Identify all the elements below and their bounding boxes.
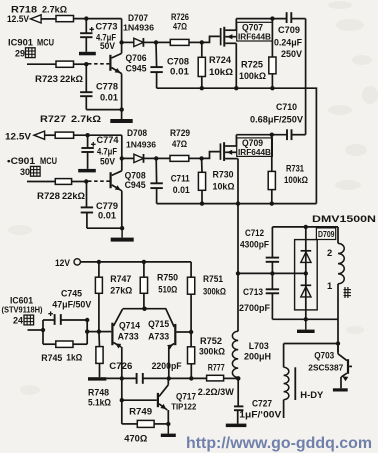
wire (right bus from C709 down to C710)	[305, 19, 307, 135]
resistor R723 22k	[56, 61, 74, 67]
transistor Q715 A733	[174, 324, 176, 345]
wire	[72, 181, 87, 183]
wire (ch1 source rail)	[157, 87, 306, 89]
svg-text:R751: R751	[203, 274, 223, 284]
svg-text:C779: C779	[96, 201, 118, 211]
ground (C774)	[78, 169, 96, 173]
diode (lower, in D709)	[301, 284, 312, 286]
svg-text:C713: C713	[243, 287, 263, 297]
wire	[156, 41, 170, 43]
svg-text:D707: D707	[128, 12, 148, 23]
diode (upper, in D709)	[301, 250, 312, 252]
capacitor C727 1uF/100V	[237, 378, 239, 405]
svg-text:0.01: 0.01	[173, 185, 190, 195]
svg-text:2200pF: 2200pF	[152, 361, 182, 371]
wire to Q707 gate	[202, 36, 220, 42]
svg-text:510Ω: 510Ω	[158, 285, 177, 295]
resistor R730 10k	[201, 158, 203, 172]
resistor R748 5.1k	[98, 332, 101, 347]
svg-text:C726: C726	[109, 361, 132, 371]
diode D708 1N4936	[122, 157, 134, 159]
svg-text:R727: R727	[40, 114, 66, 125]
ground (Q708 emitter)	[121, 228, 123, 237]
svg-text:100kΩ: 100kΩ	[239, 71, 266, 81]
wire to Q717 base	[121, 378, 123, 400]
svg-text:R750: R750	[157, 273, 178, 283]
svg-text:L703: L703	[249, 341, 269, 351]
svg-text:30: 30	[20, 167, 30, 177]
svg-text:12.5V: 12.5V	[5, 132, 32, 142]
svg-text:H-DY: H-DY	[300, 389, 324, 400]
diode D707 1N4936	[122, 41, 134, 43]
svg-text:200μH: 200μH	[244, 352, 271, 362]
svg-text:Q706: Q706	[126, 52, 147, 63]
svg-text:R718: R718	[11, 5, 37, 16]
svg-text:C710: C710	[276, 102, 297, 112]
svg-text:C709: C709	[278, 25, 300, 35]
svg-text:IRF644B: IRF644B	[238, 32, 271, 41]
svg-text:22kΩ: 22kΩ	[62, 191, 86, 201]
wire (dashed) to Q708 base	[88, 180, 110, 182]
svg-text:100kΩ: 100kΩ	[284, 175, 308, 185]
svg-text:C778: C778	[96, 82, 118, 92]
wire	[121, 19, 123, 43]
svg-text:http://www.go-gddq.com: http://www.go-gddq.com	[186, 435, 372, 452]
svg-text:Q709: Q709	[242, 138, 263, 148]
svg-text:C708: C708	[167, 57, 189, 67]
resistor R751 300k	[190, 262, 192, 277]
kanji (FBT)	[344, 287, 352, 298]
ground (Q703 emitter)	[333, 388, 348, 391]
svg-text:1N4936: 1N4936	[123, 23, 154, 33]
resistor R727 2.7k	[55, 132, 73, 138]
wire pin30	[27, 181, 55, 183]
svg-text:5.1kΩ: 5.1kΩ	[88, 398, 111, 408]
wire Q715 base	[176, 331, 191, 333]
svg-text:IRF644B: IRF644B	[238, 148, 271, 157]
resistor R747 27k	[98, 262, 100, 277]
inductor L703 200uH	[237, 273, 239, 331]
capacitor C726 2200pF	[136, 373, 138, 384]
svg-text:R777: R777	[208, 363, 225, 373]
svg-text:27kΩ: 27kΩ	[110, 286, 132, 296]
capacitor C712 4300pF	[271, 262, 273, 274]
H deflection yoke winding H-DY	[283, 344, 285, 368]
svg-text:0.68μF/250V: 0.68μF/250V	[250, 115, 303, 125]
svg-text:12V: 12V	[55, 257, 71, 268]
capacitor C774 4.7uF 50V	[87, 135, 89, 147]
svg-text:R747: R747	[110, 274, 131, 284]
capacitor C713 2700pF	[271, 273, 273, 288]
wire	[86, 109, 121, 111]
svg-text:1kΩ: 1kΩ	[66, 353, 82, 363]
pin29 kanji	[26, 48, 36, 58]
svg-text:12.5V: 12.5V	[7, 14, 30, 24]
svg-text:C727: C727	[252, 399, 272, 409]
svg-text:R745: R745	[41, 353, 62, 363]
svg-text:C712: C712	[245, 228, 264, 238]
transistor Q706 C945	[109, 55, 111, 71]
wire (12V rail)	[80, 261, 191, 263]
svg-text:R728: R728	[37, 191, 60, 201]
wire	[86, 320, 88, 344]
resistor R777 2.2/3W	[207, 375, 224, 381]
svg-text:MCU: MCU	[40, 156, 57, 166]
svg-text:•C901: •C901	[7, 156, 35, 166]
ground (C773)	[79, 52, 96, 56]
wire Q714 base	[99, 331, 111, 333]
resistor R749 470	[121, 400, 123, 424]
wire (bottom row to coil/Q703)	[272, 318, 338, 320]
resistor R724 10k	[201, 42, 203, 57]
wire (C712 top row)	[272, 226, 338, 228]
svg-text:R752: R752	[200, 336, 222, 346]
svg-text:MCU: MCU	[37, 38, 54, 48]
svg-text:47Ω: 47Ω	[173, 22, 187, 32]
svg-text:R729: R729	[170, 128, 190, 138]
svg-text:R731: R731	[286, 164, 304, 174]
wire (emitter row)	[106, 377, 136, 379]
ground (R748)	[88, 377, 106, 380]
transistor Q717 TIP122	[157, 393, 159, 407]
wire (H-DY top to Q703 collector)	[284, 343, 338, 345]
svg-text:0.01: 0.01	[170, 67, 189, 77]
svg-text:C711: C711	[171, 174, 190, 184]
wire (rail jog to right bus)	[306, 88, 317, 203]
ground (Q717 emitter)	[167, 424, 169, 434]
svg-text:C745: C745	[61, 289, 82, 299]
capacitor C773 4.7uF 50V	[85, 19, 87, 33]
svg-text:29: 29	[15, 49, 25, 59]
svg-text:0.24μF: 0.24μF	[274, 38, 303, 48]
wire	[189, 157, 202, 159]
D709 boxed label	[316, 228, 335, 240]
svg-text:C945: C945	[125, 179, 146, 190]
svg-text:R723: R723	[35, 74, 58, 84]
svg-text:0.01: 0.01	[100, 93, 118, 103]
capacitor C710 0.68uF/250V	[286, 129, 288, 140]
wire node A	[74, 18, 122, 20]
ground (under D709 block)	[305, 319, 307, 329]
svg-text:Q717: Q717	[176, 392, 196, 402]
wire	[74, 63, 87, 65]
resistor R731 100k	[271, 135, 273, 172]
svg-text:R725: R725	[241, 60, 263, 70]
svg-text:A733: A733	[148, 332, 169, 342]
wire	[45, 134, 56, 136]
resistor R750 510	[143, 262, 145, 277]
wire (dashed) to Q706 base	[88, 63, 109, 65]
svg-text:2.7kΩ: 2.7kΩ	[71, 114, 101, 125]
wire (mid row)	[238, 272, 306, 274]
capacitor C711 0.01	[155, 158, 157, 182]
MOSFET Q707 IRF644B	[220, 28, 222, 45]
svg-text:2.7kΩ: 2.7kΩ	[42, 5, 67, 16]
svg-text:2700pF: 2700pF	[239, 303, 270, 313]
svg-text:IC901: IC901	[8, 38, 33, 48]
svg-text:47μF/50V: 47μF/50V	[52, 300, 91, 310]
resistor R728 22k	[55, 179, 71, 185]
svg-text:(STV9118H): (STV9118H)	[2, 306, 43, 315]
wire	[87, 227, 122, 229]
svg-text:Q703: Q703	[314, 351, 334, 361]
svg-text:R724: R724	[209, 55, 232, 65]
ground (C727)	[226, 424, 247, 428]
svg-text:22kΩ: 22kΩ	[60, 74, 84, 84]
wire	[41, 18, 56, 20]
wire pin24	[28, 329, 44, 331]
svg-text:10kΩ: 10kΩ	[213, 182, 235, 192]
wire (bus down to lower section)	[237, 204, 239, 274]
svg-text:D709: D709	[318, 229, 335, 239]
wire (Q707 drain)	[235, 19, 237, 31]
svg-text:R748: R748	[88, 388, 109, 398]
svg-text:470Ω: 470Ω	[124, 434, 147, 444]
svg-text:D708: D708	[127, 127, 147, 138]
resistor R745 1k	[43, 343, 56, 345]
wire	[121, 135, 123, 158]
svg-text:2SC5387: 2SC5387	[308, 363, 343, 373]
svg-text:R730: R730	[213, 170, 234, 180]
wire (ch2 source rail)	[157, 203, 317, 205]
svg-text:50V: 50V	[100, 157, 115, 167]
svg-text:47Ω: 47Ω	[172, 139, 187, 149]
capacitor C778 0.01	[85, 64, 87, 91]
resistor R752 300k	[190, 332, 192, 347]
svg-text:4300pF: 4300pF	[240, 240, 269, 250]
svg-text:C773: C773	[96, 22, 118, 32]
svg-text:Q707: Q707	[242, 22, 263, 32]
damper diode block D709	[295, 240, 318, 310]
collector wire	[123, 308, 167, 310]
wire (Q709 drain)	[235, 135, 237, 146]
wire	[143, 377, 207, 379]
svg-text:R749: R749	[129, 407, 152, 417]
svg-text:IC601: IC601	[10, 296, 33, 306]
wire	[189, 41, 202, 43]
wire to Q709 gate	[202, 152, 220, 159]
resistor R725 100k	[271, 19, 273, 57]
svg-text:1N4936: 1N4936	[126, 140, 156, 150]
svg-text:2: 2	[327, 247, 332, 258]
svg-text:2.2Ω/3W: 2.2Ω/3W	[198, 387, 234, 397]
svg-text:C774: C774	[97, 135, 119, 145]
resistor R729 47	[170, 155, 189, 161]
svg-text:250V: 250V	[281, 49, 302, 59]
capacitor C709 0.24uF 250V	[286, 12, 288, 23]
transistor Q708 C945	[110, 172, 112, 188]
svg-text:C945: C945	[126, 63, 147, 74]
MOSFET Q709 IRF644B	[220, 143, 222, 159]
svg-text:TIP122: TIP122	[171, 402, 196, 412]
svg-text:4.7μF: 4.7μF	[97, 147, 118, 157]
svg-text:1μF/ʻ00V: 1μF/ʻ00V	[239, 410, 281, 420]
svg-text:24: 24	[13, 316, 24, 326]
capacitor C745 47uF/50V	[43, 319, 55, 321]
flyback primary winding T (pins 2-1)	[337, 227, 339, 244]
svg-text:300kΩ: 300kΩ	[203, 287, 226, 297]
wire pin29	[27, 63, 56, 65]
capacitor C779 0.01	[86, 182, 88, 207]
wire	[156, 157, 170, 159]
capacitor C708 0.01	[155, 42, 158, 66]
transistor Q714 A733	[111, 323, 113, 346]
svg-text:R726: R726	[171, 12, 189, 22]
svg-text:0.01: 0.01	[98, 211, 116, 221]
svg-text:DMV1500N: DMV1500N	[312, 214, 376, 225]
ground (Q706 emitter)	[110, 119, 132, 123]
svg-text:300kΩ: 300kΩ	[199, 347, 225, 357]
transistor Q703 2SC5387	[337, 344, 339, 354]
svg-text:A733: A733	[118, 332, 139, 342]
svg-text:Q714: Q714	[119, 321, 141, 331]
svg-text:50V: 50V	[100, 41, 115, 51]
svg-text:1: 1	[327, 280, 332, 291]
resistor R718 2.7k	[56, 16, 74, 22]
svg-text:Q715: Q715	[148, 319, 169, 329]
svg-text:10kΩ: 10kΩ	[209, 67, 233, 77]
resistor R726 47	[170, 39, 189, 45]
wire	[74, 134, 122, 136]
